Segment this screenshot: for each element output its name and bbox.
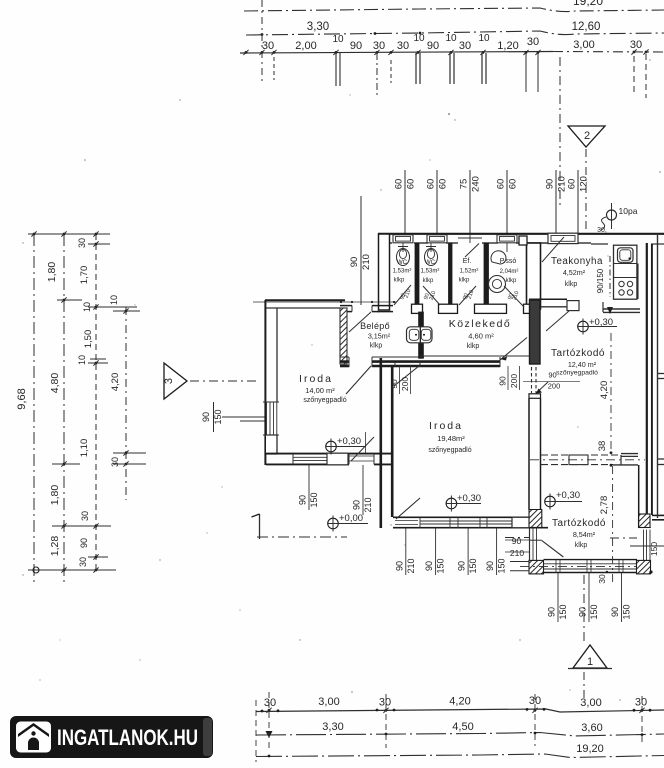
svg-text:klkp: klkp bbox=[565, 281, 578, 288]
svg-text:90: 90 bbox=[547, 607, 557, 617]
ingatlanok.hu watermark banner bbox=[10, 716, 213, 758]
window drop stubs in WC rooms bbox=[402, 243, 404, 252]
svg-text:200: 200 bbox=[548, 382, 561, 391]
svg-text:90: 90 bbox=[457, 561, 467, 571]
svg-text:szőnyegpadló: szőnyegpadló bbox=[556, 370, 598, 377]
svg-text:klkp: klkp bbox=[394, 278, 405, 284]
opening size label 75/240 bbox=[469, 170, 471, 233]
svg-text:150: 150 bbox=[309, 492, 319, 507]
left Iroda left wall bbox=[264, 300, 266, 465]
partition wall WC1/WC2 bbox=[415, 243, 419, 309]
outer top wall of WC row bbox=[378, 233, 664, 235]
elevation mark bbox=[326, 441, 337, 452]
Belepo to Iroda door swing bbox=[346, 366, 371, 394]
svg-text:+0,30: +0,30 bbox=[556, 490, 580, 501]
right wall upper (outer) bbox=[646, 243, 648, 516]
drain pipe symbol 10pa bbox=[611, 203, 613, 229]
svg-text:30: 30 bbox=[527, 36, 539, 48]
elevation mark bbox=[328, 518, 339, 529]
svg-text:1,50: 1,50 bbox=[83, 330, 94, 349]
central wall bbox=[379, 358, 382, 528]
svg-text:150: 150 bbox=[622, 604, 632, 619]
svg-text:60: 60 bbox=[567, 179, 578, 190]
dim lines 4,20 and 2,78 right side bbox=[610, 333, 612, 454]
svg-text:150: 150 bbox=[649, 542, 659, 556]
section marker 3 (left) bbox=[164, 363, 187, 399]
svg-text:30: 30 bbox=[630, 39, 642, 51]
svg-text:90: 90 bbox=[610, 607, 620, 617]
svg-text:4,20: 4,20 bbox=[449, 696, 470, 708]
svg-text:1,53m²: 1,53m² bbox=[393, 269, 412, 275]
svg-text:klkp: klkp bbox=[506, 278, 517, 284]
svg-text:klkp: klkp bbox=[459, 278, 470, 284]
svg-text:10: 10 bbox=[332, 34, 344, 45]
svg-text:120: 120 bbox=[579, 176, 590, 192]
svg-text:+0,30: +0,30 bbox=[589, 317, 613, 328]
kitchen counter bbox=[614, 245, 637, 299]
svg-text:Teakonyha: Teakonyha bbox=[551, 256, 603, 267]
svg-text:3: 3 bbox=[163, 378, 175, 384]
adjacent unit wall line right edge bbox=[657, 235, 659, 518]
double sink on divider bbox=[407, 327, 433, 343]
Pisso basin bbox=[491, 251, 506, 264]
WC row bottom wall with door gaps bbox=[378, 305, 393, 307]
svg-text:INGATLANOK.HU: INGATLANOK.HU bbox=[57, 725, 198, 750]
beam lines / niche 38 bbox=[541, 454, 621, 456]
svg-text:90: 90 bbox=[498, 376, 508, 386]
svg-text:30: 30 bbox=[78, 557, 88, 567]
svg-text:60: 60 bbox=[438, 179, 449, 190]
top dimension chain line bbox=[240, 52, 553, 54]
svg-text:90: 90 bbox=[298, 495, 308, 505]
svg-text:szőnyegpadló: szőnyegpadló bbox=[428, 447, 471, 454]
lower Tartozkodo bottom window wall bbox=[544, 559, 638, 561]
svg-text:szőnyegpadló: szőnyegpadló bbox=[303, 397, 346, 404]
Kozlekedo right wall bbox=[530, 300, 541, 364]
watermark house icon bbox=[16, 722, 51, 753]
svg-text:4,20: 4,20 bbox=[110, 373, 121, 392]
svg-text:Ef.: Ef. bbox=[463, 258, 472, 265]
svg-text:30: 30 bbox=[373, 40, 385, 52]
svg-text:38: 38 bbox=[597, 441, 608, 452]
wall shoulder top bbox=[519, 236, 527, 245]
svg-text:9,68: 9,68 bbox=[16, 388, 28, 409]
svg-text:210: 210 bbox=[406, 558, 416, 573]
svg-text:30: 30 bbox=[459, 40, 471, 52]
svg-text:150: 150 bbox=[436, 558, 446, 573]
svg-text:10: 10 bbox=[109, 295, 119, 305]
svg-text:30: 30 bbox=[597, 574, 607, 584]
svg-text:WC: WC bbox=[397, 259, 408, 266]
elevation mark bbox=[545, 496, 556, 507]
svg-text:10: 10 bbox=[82, 302, 92, 312]
svg-text:75: 75 bbox=[459, 179, 470, 190]
svg-text:WC: WC bbox=[425, 259, 436, 266]
svg-text:Belépő: Belépő bbox=[360, 321, 390, 331]
section line 1-1 bbox=[257, 536, 347, 538]
svg-text:19,48m²: 19,48m² bbox=[437, 434, 465, 443]
center Iroda bottom wall bbox=[393, 516, 530, 518]
svg-text:90: 90 bbox=[578, 607, 588, 617]
adjacent unit wall stubs right edge bbox=[657, 373, 664, 375]
WC block left pillar bbox=[379, 234, 390, 310]
bottom dimension line C bbox=[256, 754, 664, 758]
svg-text:2: 2 bbox=[584, 130, 590, 142]
svg-text:Iroda: Iroda bbox=[429, 420, 463, 432]
bottom window glass center Iroda bbox=[420, 520, 512, 522]
svg-text:klkp: klkp bbox=[370, 343, 383, 350]
top dimension line 3,30 / 12,60 bbox=[246, 31, 664, 35]
svg-text:30: 30 bbox=[397, 40, 409, 52]
svg-text:klkp: klkp bbox=[575, 542, 588, 549]
svg-text:60: 60 bbox=[496, 179, 507, 190]
toilet WC1 bbox=[397, 249, 410, 266]
WC door swings bbox=[394, 285, 411, 305]
partition wall Ef/Pisso bbox=[484, 243, 489, 309]
svg-text:19,20: 19,20 bbox=[576, 743, 604, 755]
svg-text:3,15m²: 3,15m² bbox=[368, 332, 391, 341]
Belepo bottom wall bbox=[340, 360, 349, 363]
svg-text:2,78: 2,78 bbox=[599, 496, 610, 515]
svg-text:1,53m²: 1,53m² bbox=[421, 269, 440, 275]
svg-text:90: 90 bbox=[389, 379, 399, 389]
partition wall WC2/Ef bbox=[449, 243, 453, 309]
svg-text:150: 150 bbox=[497, 558, 507, 573]
svg-text:1,28: 1,28 bbox=[49, 536, 61, 557]
svg-text:19,20: 19,20 bbox=[573, 0, 603, 8]
opening size label 60/120 bbox=[577, 170, 579, 233]
top dimension line 19,20 bbox=[244, 8, 664, 12]
svg-text:P.ssó: P.ssó bbox=[500, 258, 517, 265]
svg-text:1,80: 1,80 bbox=[46, 262, 58, 283]
hatched wall strip left of Belepo bbox=[340, 308, 347, 364]
hatched block lower-left Tartozkodo bbox=[529, 510, 542, 528]
svg-text:90: 90 bbox=[394, 561, 404, 571]
svg-text:3,60: 3,60 bbox=[581, 722, 602, 734]
svg-text:14,00 m²: 14,00 m² bbox=[305, 386, 335, 395]
svg-text:1: 1 bbox=[587, 656, 593, 668]
right door jamb lines bbox=[643, 530, 645, 562]
Belepo top wall + entry door bbox=[340, 305, 352, 307]
svg-text:150: 150 bbox=[558, 604, 568, 619]
bottom dimension chain line A bbox=[256, 709, 664, 712]
Belepo/Kozlekedo divider wall bbox=[419, 312, 424, 358]
wall Pisso right (white cored) bbox=[527, 243, 541, 309]
svg-text:90: 90 bbox=[79, 538, 89, 548]
svg-text:Iroda: Iroda bbox=[299, 373, 333, 385]
terrace door center Iroda bbox=[395, 520, 418, 522]
left wall window bbox=[266, 402, 268, 435]
svg-text:8,54m²: 8,54m² bbox=[573, 530, 596, 539]
svg-text:90: 90 bbox=[350, 40, 362, 52]
svg-text:3,00: 3,00 bbox=[573, 39, 594, 51]
left Iroda bottom wall bbox=[266, 453, 393, 455]
svg-text:10: 10 bbox=[478, 33, 490, 44]
svg-text:200: 200 bbox=[509, 374, 519, 388]
svg-text:150: 150 bbox=[468, 558, 478, 573]
svg-text:90: 90 bbox=[352, 500, 362, 510]
svg-text:210: 210 bbox=[363, 497, 373, 512]
Kozlekedo right door swing bbox=[500, 338, 527, 361]
svg-text:2,00: 2,00 bbox=[295, 40, 316, 52]
door jamb white blocks WC row bbox=[412, 304, 423, 313]
bottom window glass bbox=[293, 456, 327, 458]
svg-text:60: 60 bbox=[426, 179, 437, 190]
svg-text:4,52m²: 4,52m² bbox=[563, 268, 586, 277]
window mullion ticks bbox=[555, 560, 557, 573]
svg-text:60: 60 bbox=[508, 179, 519, 190]
drain line to kitchen bbox=[609, 256, 611, 297]
svg-text:1,70: 1,70 bbox=[79, 266, 90, 285]
svg-text:30: 30 bbox=[379, 697, 391, 709]
bottom dimension line B bbox=[256, 733, 664, 737]
top wall window blocks bbox=[393, 235, 413, 243]
svg-text:90: 90 bbox=[545, 179, 556, 190]
svg-text:+0,00: +0,00 bbox=[339, 513, 363, 524]
svg-text:Közlekedő: Közlekedő bbox=[449, 318, 512, 330]
svg-text:30: 30 bbox=[77, 238, 87, 248]
section marker 2 bbox=[559, 57, 561, 205]
svg-text:30: 30 bbox=[110, 457, 120, 467]
window label 90/150 left of plan bbox=[213, 402, 215, 432]
svg-text:1,80: 1,80 bbox=[49, 485, 61, 506]
svg-text:210: 210 bbox=[361, 254, 372, 270]
svg-text:1,52m²: 1,52m² bbox=[460, 269, 479, 275]
opening size label 60/60 bbox=[506, 170, 508, 233]
svg-text:30: 30 bbox=[80, 511, 90, 521]
window label columns below center Iroda bbox=[405, 528, 407, 575]
opening size label 60/60 bbox=[404, 170, 406, 233]
teakonyha window block 90/210 bbox=[548, 233, 578, 243]
svg-text:3,00: 3,00 bbox=[580, 697, 601, 709]
wall jog right 38 bbox=[621, 453, 638, 455]
Teakonyha bottom wall + door bbox=[529, 298, 567, 300]
svg-text:150: 150 bbox=[589, 604, 599, 619]
svg-text:10pa: 10pa bbox=[619, 206, 638, 216]
Pisso urinal circle bbox=[489, 276, 506, 293]
drop lines below top chain bbox=[261, 0, 263, 83]
svg-text:10: 10 bbox=[413, 33, 425, 44]
terrace door left Iroda bbox=[349, 455, 374, 457]
door upper Tartozkodo (leaf+swing) bbox=[531, 367, 533, 393]
svg-text:3,30: 3,30 bbox=[322, 721, 343, 733]
svg-text:12,60: 12,60 bbox=[572, 21, 601, 33]
svg-text:4,60 m²: 4,60 m² bbox=[468, 332, 494, 341]
svg-text:10: 10 bbox=[445, 33, 457, 44]
window label columns below lower Tartozkodo bbox=[557, 573, 559, 622]
label columns below left Iroda bbox=[308, 465, 310, 510]
Ef entry door gap + swing bbox=[458, 237, 482, 239]
svg-text:Tartózkodó: Tartózkodó bbox=[552, 518, 606, 529]
section flag 1 bbox=[259, 514, 261, 539]
right wall exits right bbox=[652, 514, 664, 516]
svg-text:2,04m²: 2,04m² bbox=[500, 269, 519, 275]
left Iroda top wall bbox=[265, 299, 345, 301]
left vertical dimension chain bbox=[33, 234, 35, 586]
section marker 1 (bottom) bbox=[583, 575, 585, 645]
Teakonyha door swings bbox=[542, 237, 564, 262]
opening size label 60/60 bbox=[436, 170, 438, 233]
svg-text:240: 240 bbox=[471, 176, 482, 192]
door labels 90/200 center bbox=[399, 366, 401, 394]
svg-text:+0,30: +0,30 bbox=[337, 436, 361, 447]
svg-text:90: 90 bbox=[424, 561, 434, 571]
bottom dim verticals bbox=[268, 692, 270, 749]
svg-text:90: 90 bbox=[201, 412, 211, 422]
elevation mark bbox=[446, 498, 457, 509]
opening size label 90/210 bbox=[555, 170, 557, 233]
svg-text:60: 60 bbox=[406, 179, 417, 190]
hatched block left of lower Tartozkodo bottom bbox=[529, 560, 544, 574]
svg-text:3,00: 3,00 bbox=[318, 696, 339, 708]
Kozlekedo bottom wall bbox=[424, 360, 500, 363]
elevation mark bbox=[578, 321, 589, 332]
svg-text:12,40 m²: 12,40 m² bbox=[568, 360, 597, 369]
svg-text:90: 90 bbox=[349, 257, 360, 268]
dim tick line y302 across Belepo entry bbox=[253, 301, 396, 303]
svg-text:10: 10 bbox=[77, 355, 87, 365]
svg-text:200: 200 bbox=[400, 377, 410, 391]
svg-text:4,20: 4,20 bbox=[599, 381, 610, 400]
scan noise bbox=[84, 159, 86, 161]
svg-text:90/150: 90/150 bbox=[596, 268, 605, 293]
svg-text:90: 90 bbox=[427, 40, 439, 52]
hatched corner block right (upper) bbox=[639, 514, 650, 528]
svg-text:+0,30: +0,30 bbox=[457, 493, 481, 504]
svg-text:150: 150 bbox=[213, 409, 223, 424]
svg-text:Tartózkodó: Tartózkodó bbox=[551, 348, 605, 359]
svg-text:klkp: klkp bbox=[423, 278, 434, 284]
hatched corner block bottom right bbox=[637, 560, 651, 574]
svg-text:30: 30 bbox=[262, 40, 274, 52]
svg-text:klkp: klkp bbox=[467, 343, 480, 350]
svg-text:210: 210 bbox=[510, 548, 524, 558]
toilet WC2 bbox=[425, 249, 438, 266]
svg-text:3,30: 3,30 bbox=[307, 21, 329, 33]
door center Iroda left + swing bbox=[394, 362, 396, 366]
svg-text:30: 30 bbox=[635, 697, 647, 709]
svg-text:90: 90 bbox=[485, 561, 495, 571]
svg-text:4,50: 4,50 bbox=[452, 721, 473, 733]
svg-text:4,80: 4,80 bbox=[49, 373, 61, 394]
step lines left of block bbox=[510, 561, 529, 563]
lower Tartozkodo left door bbox=[529, 528, 531, 561]
svg-text:1,10: 1,10 bbox=[79, 439, 90, 458]
svg-text:60: 60 bbox=[394, 179, 405, 190]
svg-text:30: 30 bbox=[264, 697, 276, 709]
svg-text:1,20: 1,20 bbox=[497, 40, 518, 52]
